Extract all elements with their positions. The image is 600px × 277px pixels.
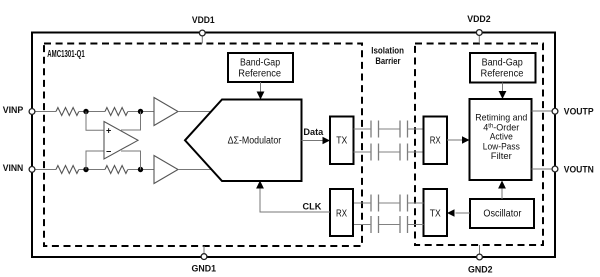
- wire node D feedback to op-amp: [121, 151, 141, 170]
- wire buffer A1 to modulator: [178, 111, 212, 113]
- svg-text:VDD2: VDD2: [467, 14, 490, 25]
- wire C3 to C4: [379, 151, 401, 153]
- capacitor C6: [378, 195, 380, 212]
- capacitor C5: [407, 195, 409, 212]
- capacitor C4: [399, 144, 401, 161]
- wire TX1 to capacitor C1: [354, 128, 372, 130]
- buffer amp A2 (bottom): [154, 156, 178, 184]
- op-amp A3 (input differential amp): [104, 122, 138, 160]
- wire TX2 to capacitor C5: [408, 202, 424, 204]
- wire C2 to RX1: [408, 128, 424, 130]
- arrowhead oscillator to retiming filter: [498, 181, 506, 189]
- buffer amp A1 (top): [154, 98, 178, 126]
- svg-text:Reference: Reference: [481, 69, 524, 80]
- wire R1 to R2: [79, 111, 105, 113]
- svg-text:Active: Active: [490, 132, 513, 142]
- pin VOUTN circle: [552, 166, 558, 172]
- RX1 box (top right receiver): [424, 117, 448, 165]
- svg-text:RX: RX: [430, 134, 441, 146]
- RX2 box (bottom left receiver): [330, 189, 353, 236]
- svg-text:Isolation: Isolation: [371, 45, 404, 56]
- pin VOUTP circle: [552, 108, 558, 114]
- node dot D (bottom): [138, 167, 143, 172]
- svg-text:Reference: Reference: [238, 69, 281, 80]
- wire TX2 to capacitor C7: [408, 224, 424, 226]
- wire C1 to C2: [379, 128, 401, 130]
- svg-text:CLK: CLK: [303, 202, 322, 213]
- svg-text:Low-Pass: Low-Pass: [483, 142, 520, 152]
- node dot A (top): [83, 109, 88, 114]
- retiming and low-pass filter box U2: [470, 99, 532, 180]
- wire R3 to R4: [79, 169, 105, 171]
- wire oscillator to retiming filter: [501, 188, 503, 200]
- outer border rectangle: [32, 33, 555, 258]
- svg-text:TX: TX: [430, 207, 441, 219]
- capacitor C3: [370, 144, 372, 161]
- wire VINP input: [35, 111, 57, 113]
- resistor R3 (VINN first): [56, 166, 79, 174]
- wire band-gap 2 to retiming filter: [502, 83, 504, 94]
- dashed box AMC1301-Q1 (left, low side): [44, 44, 362, 247]
- wire RX1 to retiming filter: [447, 139, 463, 141]
- svg-text:VDD1: VDD1: [192, 15, 215, 26]
- svg-text:Band-Gap: Band-Gap: [240, 57, 280, 68]
- svg-text:−: −: [106, 147, 111, 157]
- wire node B feedback to op-amp: [121, 112, 141, 131]
- wire C8 to RX2: [353, 224, 371, 226]
- node dot C (bottom): [83, 167, 88, 172]
- wire retiming filter to VOUTP: [532, 110, 553, 112]
- svg-text:ΔΣ-Modulator: ΔΣ-Modulator: [228, 136, 282, 147]
- wire retiming filter to VOUTN: [532, 168, 553, 170]
- svg-text:Retiming and: Retiming and: [475, 113, 527, 123]
- wire R2 to buffer A1: [128, 111, 154, 113]
- wire R4 to buffer A2: [128, 169, 154, 171]
- svg-text:+: +: [106, 126, 111, 136]
- arrowhead band-gap 1 to modulator: [257, 92, 265, 100]
- arrowhead Data into TX1: [323, 137, 331, 144]
- svg-text:VINP: VINP: [3, 105, 24, 116]
- wire node C to op-amp - input: [86, 151, 104, 170]
- capacitor C7: [407, 216, 409, 233]
- resistor R2 (VINP second): [105, 108, 128, 116]
- svg-text:VOUTN: VOUTN: [564, 164, 594, 175]
- svg-text:VOUTP: VOUTP: [564, 107, 594, 118]
- wire CLK from RX2 to modulator: [260, 188, 330, 213]
- svg-text:GND1: GND1: [192, 263, 217, 274]
- svg-text:AMC1301-Q1: AMC1301-Q1: [47, 49, 85, 60]
- TX2 box (bottom right transmitter): [424, 189, 448, 236]
- pin GND1 stub: [203, 246, 205, 254]
- wire C4 to RX1: [408, 151, 424, 153]
- pin VDD1 circle: [199, 30, 205, 36]
- svg-text:Filter: Filter: [491, 151, 512, 161]
- arrowhead oscillator to TX2: [447, 209, 455, 216]
- wire C6 to RX2: [353, 202, 371, 204]
- resistor R4 (VINN second): [105, 166, 128, 174]
- wire node A to op-amp + input: [86, 112, 104, 131]
- svg-text:Data: Data: [303, 127, 324, 138]
- pin VINP circle: [29, 109, 35, 115]
- arrowhead RX1 to retiming filter: [462, 136, 470, 143]
- band-gap reference 2 box: [470, 53, 536, 83]
- wire oscillator to TX2: [456, 212, 471, 214]
- delta-sigma modulator U1: [185, 100, 302, 182]
- pin VDD2 circle: [476, 30, 482, 36]
- pin GND2 stub: [479, 245, 481, 254]
- svg-text:Oscillator: Oscillator: [483, 209, 522, 220]
- pin GND1 circle: [201, 254, 207, 260]
- wire VINN input: [35, 169, 57, 171]
- svg-text:TX: TX: [336, 134, 347, 146]
- capacitor C8: [378, 216, 380, 233]
- wire band-gap 1 to modulator: [260, 82, 262, 93]
- svg-text:VINN: VINN: [3, 163, 24, 174]
- oscillator box U3: [470, 199, 534, 228]
- arrowhead band-gap 2 to retiming filter: [499, 91, 507, 99]
- pin VDD2 stub: [478, 35, 480, 44]
- pin VDD1 stub: [201, 36, 203, 44]
- svg-text:Band-Gap: Band-Gap: [482, 57, 524, 68]
- wire C7 to C8: [379, 224, 401, 226]
- pin VINN circle: [29, 167, 35, 173]
- svg-text:GND2: GND2: [468, 264, 493, 275]
- capacitor C2: [399, 121, 401, 138]
- wire Data modulator to TX1: [302, 140, 324, 142]
- band-gap reference 1 box: [228, 53, 293, 82]
- resistor R1 (VINP first): [56, 108, 79, 116]
- TX1 box (top left transmitter): [330, 117, 354, 165]
- wire C5 to C6: [379, 202, 401, 204]
- dashed box isolated high side (right): [415, 44, 543, 246]
- arrowhead CLK into modulator: [256, 181, 264, 189]
- svg-text:RX: RX: [336, 207, 347, 219]
- svg-text:Barrier: Barrier: [375, 56, 400, 67]
- capacitor C1: [370, 121, 372, 138]
- wire buffer A2 to modulator: [178, 169, 213, 171]
- wire TX1 to capacitor C3: [354, 151, 372, 153]
- node dot B (top): [138, 109, 143, 114]
- pin GND2 circle: [477, 254, 483, 260]
